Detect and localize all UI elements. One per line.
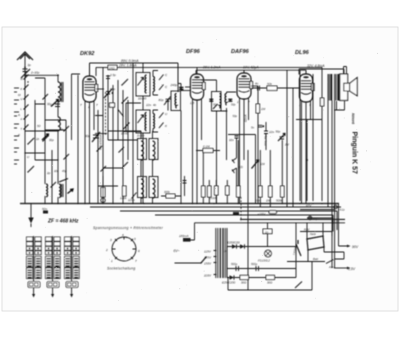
- svg-text:1M: 1M: [261, 162, 266, 166]
- svg-text:62mA: 62mA: [244, 115, 248, 122]
- svg-text:10-40: 10-40: [121, 132, 129, 136]
- svg-text:DAF96: DAF96: [231, 49, 250, 55]
- svg-text:3p: 3p: [28, 63, 32, 67]
- svg-text:DF96: DF96: [186, 49, 201, 55]
- svg-text:1,5: 1,5: [190, 101, 195, 105]
- svg-text:4k: 4k: [153, 103, 157, 107]
- svg-text:0.1M: 0.1M: [203, 145, 210, 149]
- svg-text:30Ω: 30Ω: [241, 281, 247, 285]
- svg-text:10n 45: 10n 45: [138, 97, 147, 101]
- svg-text:150V: 150V: [204, 261, 212, 265]
- svg-text:10n: 10n: [229, 138, 234, 142]
- svg-text:ZF = 468 kHz: ZF = 468 kHz: [47, 219, 79, 225]
- svg-text:Spannungsmessung + Röhrenvoltm: Spannungsmessung + Röhrenvoltmeter: [93, 226, 164, 230]
- svg-text:45p: 45p: [62, 169, 67, 173]
- svg-text:50p: 50p: [233, 114, 238, 118]
- svg-text:Akkord: Akkord: [351, 113, 355, 124]
- svg-text:50k: 50k: [267, 82, 272, 86]
- svg-text:1n: 1n: [265, 230, 269, 234]
- svg-text:220V: 220V: [203, 273, 212, 277]
- svg-text:120k: 120k: [120, 196, 127, 200]
- svg-text:E250C30: E250C30: [227, 241, 240, 245]
- svg-text:2: 2: [105, 248, 108, 252]
- svg-text:115V: 115V: [204, 249, 212, 253]
- svg-text:10V, 62µA: 10V, 62µA: [243, 65, 259, 69]
- svg-text:A: A: [20, 118, 23, 121]
- svg-text:5n: 5n: [251, 126, 255, 130]
- svg-text:40p: 40p: [110, 87, 115, 91]
- svg-text:50n: 50n: [42, 207, 47, 211]
- svg-text:2p: 2p: [46, 171, 51, 175]
- svg-text:0,1µ: 0,1µ: [340, 208, 346, 212]
- svg-text:+100V: +100V: [258, 212, 266, 216]
- svg-text:50: 50: [37, 124, 41, 128]
- svg-text:1,5V: 1,5V: [348, 267, 356, 271]
- svg-text:10n: 10n: [146, 103, 151, 107]
- svg-text:4n: 4n: [255, 82, 259, 86]
- svg-text:80p: 80p: [159, 98, 164, 102]
- svg-text:27V, 70µA: 27V, 70µA: [264, 133, 268, 147]
- svg-text:Batt: Batt: [313, 257, 318, 261]
- svg-text:2.5p: 2.5p: [109, 73, 116, 77]
- svg-text:14Ω: 14Ω: [109, 66, 115, 70]
- svg-text:Aus: Aus: [328, 265, 334, 269]
- svg-text:F3,15/0,2: F3,15/0,2: [258, 259, 270, 263]
- svg-text:240p: 240p: [170, 83, 178, 87]
- svg-text:2x10n: 2x10n: [136, 134, 145, 138]
- svg-text:10n: 10n: [54, 169, 59, 173]
- svg-text:50p: 50p: [276, 130, 281, 134]
- svg-text:86V, 1.2mA: 86V, 1.2mA: [203, 65, 221, 69]
- svg-text:2x10k: 2x10k: [209, 196, 218, 200]
- svg-text:Netz: Netz: [310, 232, 316, 236]
- svg-text:1k: 1k: [36, 137, 40, 141]
- svg-text:500µ: 500µ: [231, 262, 238, 266]
- svg-text:1M: 1M: [261, 107, 266, 111]
- svg-text:32V, 4.8mA: 32V, 4.8mA: [307, 64, 325, 68]
- svg-text:89V, 0.9mA: 89V, 0.9mA: [121, 59, 139, 63]
- svg-text:30p: 30p: [49, 138, 54, 142]
- svg-text:50µ: 50µ: [313, 217, 318, 221]
- svg-text:500µ: 500µ: [251, 262, 258, 266]
- svg-text:2–10µ: 2–10µ: [30, 71, 40, 75]
- svg-text:30Ω: 30Ω: [267, 281, 273, 285]
- svg-text:10n: 10n: [269, 130, 274, 134]
- svg-text:10n: 10n: [255, 199, 260, 203]
- svg-text:120n: 120n: [128, 198, 135, 202]
- svg-text:6V~: 6V~: [174, 249, 180, 253]
- svg-text:30p: 30p: [85, 134, 90, 138]
- svg-text:DL96: DL96: [295, 50, 310, 56]
- svg-text:300k: 300k: [164, 190, 170, 194]
- svg-text:Sockelschaltung: Sockelschaltung: [107, 267, 135, 271]
- svg-text:Pinguin K 57: Pinguin K 57: [351, 132, 358, 175]
- svg-text:A: A: [17, 113, 20, 117]
- svg-text:DK92: DK92: [80, 51, 95, 57]
- svg-text:50p: 50p: [231, 103, 236, 107]
- svg-text:90V: 90V: [352, 245, 359, 249]
- svg-text:180mA: 180mA: [179, 234, 189, 238]
- svg-text:30µ: 30µ: [47, 102, 52, 106]
- svg-text:U: U: [21, 98, 23, 101]
- svg-text:E250C250: E250C250: [222, 281, 236, 285]
